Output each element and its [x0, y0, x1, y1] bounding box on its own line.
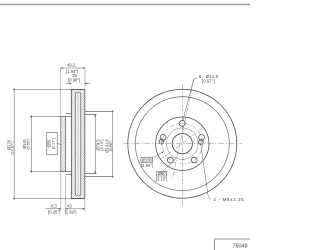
dim ø276 vertical line with corner ticks [14, 89, 71, 198]
bolt hole top [179, 121, 185, 127]
svg-text:[3.13"]: [3.13"] [100, 140, 104, 151]
leader ø80 box [163, 158, 177, 172]
section: right lower inner line [85, 173, 97, 175]
section: disc ring (hatched) [71, 90, 85, 199]
bottom dim line 43 [66, 208, 85, 210]
vertical centerline [181, 84, 183, 208]
angled centerline through top bolt hole [173, 79, 195, 178]
svg-text:[2.17"]: [2.17"] [52, 138, 56, 149]
diagonal centerline [160, 127, 204, 160]
section: mounting flange (hatched) [61, 117, 66, 172]
leader ø100 box [153, 152, 164, 158]
extension line left of 49.2 [60, 68, 62, 115]
section: flange bottom edge to disc [66, 171, 72, 173]
bolt hole upper right [199, 135, 205, 141]
section: right upper inner line [85, 114, 97, 116]
svg-text:Ø100: Ø100 [142, 157, 153, 162]
section: vent channel [75, 93, 81, 195]
dim line right 1 [94, 115, 96, 174]
boxed dim ø55 rotated [47, 132, 58, 154]
svg-text:[3.94"]: [3.94"] [141, 163, 153, 168]
title block [215, 239, 252, 250]
bolt hole lower left [168, 157, 174, 163]
horizontal centerline [124, 143, 243, 145]
M8 hole right [199, 140, 204, 145]
svg-text:[5.55"]: [5.55"] [27, 139, 31, 150]
extension line right of 49.2 [84, 68, 86, 88]
svg-text:[1.69"]: [1.69"] [65, 210, 77, 215]
hat outer circle [156, 117, 209, 170]
svg-text:6.3: 6.3 [51, 203, 57, 208]
svg-text:[0.57"]: [0.57"] [202, 78, 215, 83]
dim line right 2 [112, 111, 114, 176]
boxed label ø80 [156, 171, 168, 181]
bottom dim line 6.3 [45, 208, 61, 210]
page top border line [0, 3, 250, 5]
section: vent vane lines [76, 93, 78, 195]
bottom extension lines [60, 173, 62, 212]
section: right upper outer line [85, 110, 113, 112]
bolt hole lower right [191, 157, 197, 163]
section: flange top edge to disc [66, 116, 72, 118]
svg-text:[3.15"]: [3.15"] [156, 176, 168, 181]
braking surface inner circle [135, 97, 229, 191]
dim ø141 vertical line with corner ticks [31, 117, 60, 172]
svg-text:43: 43 [67, 203, 72, 208]
outer diameter circle [128, 89, 237, 198]
leader 5-ø14.5 [183, 78, 197, 122]
section: hat wall bottom line [66, 173, 72, 175]
bolt circle (dash-dot) [162, 123, 203, 164]
face view [128, 89, 237, 198]
svg-text:[0.98"]: [0.98"] [68, 78, 80, 83]
M8 hole left [159, 139, 164, 144]
svg-text:2 - M8x1.25: 2 - M8x1.25 [214, 197, 245, 202]
flange pad circle [167, 128, 199, 160]
svg-text:49.2: 49.2 [67, 62, 76, 67]
leader ø55 box [57, 144, 61, 145]
svg-text:[5.58"]: [5.58"] [109, 141, 113, 152]
boxed label ø100 [141, 157, 153, 168]
svg-text:[0.25"]: [0.25"] [48, 210, 60, 215]
dim 49.2 horizontal line [61, 67, 85, 69]
svg-text:76048: 76048 [233, 244, 248, 250]
bolt hole upper left [160, 135, 166, 141]
section: disc outer border [71, 90, 85, 199]
center bore circle [172, 134, 192, 154]
svg-text:[10.87"]: [10.87"] [10, 142, 14, 155]
section: right lower outer line [85, 176, 113, 178]
leader 2-M8x1.25 [201, 145, 211, 199]
section: hat wall top line [66, 113, 72, 115]
dim 25 arrows [66, 82, 71, 84]
